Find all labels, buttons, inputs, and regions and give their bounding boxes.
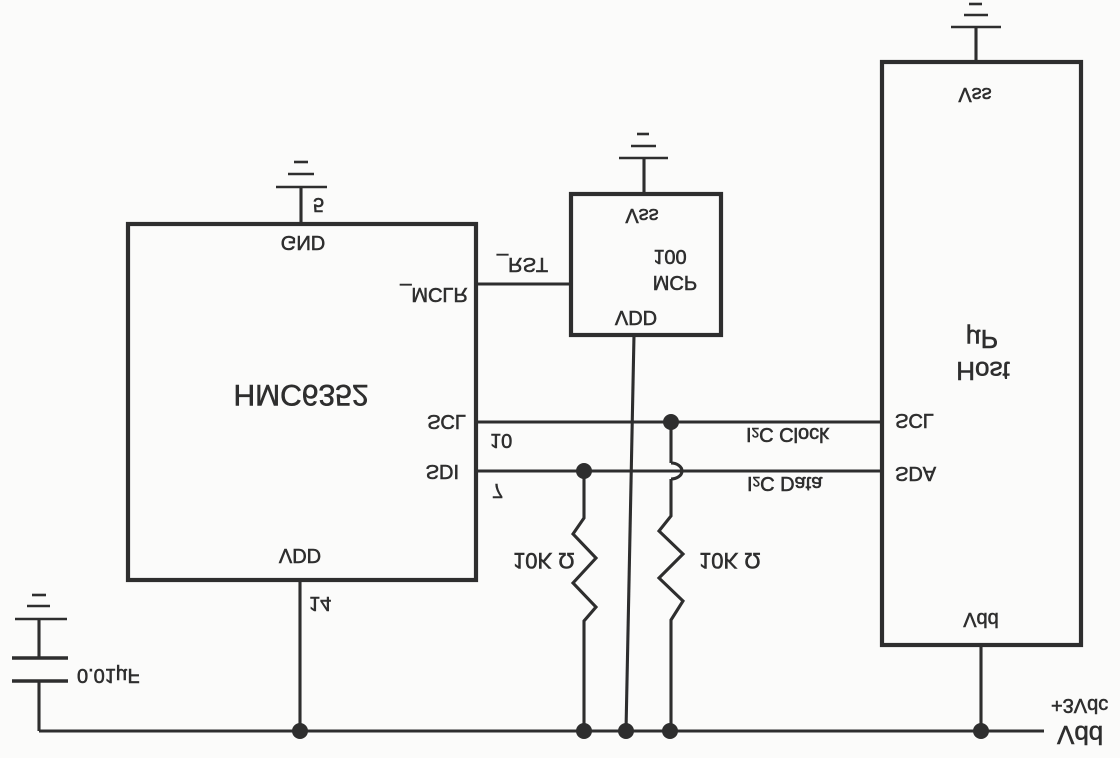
svg-text:MCP: MCP <box>653 271 697 293</box>
svg-text:10K Ω: 10K Ω <box>513 548 575 573</box>
svg-text:100: 100 <box>653 245 686 267</box>
svg-text:µP: µP <box>966 324 998 354</box>
svg-text:10K Ω: 10K Ω <box>699 548 761 573</box>
svg-text:VDD: VDD <box>279 544 321 566</box>
svg-text:Vdd: Vdd <box>1057 720 1103 750</box>
svg-text:SCL: SCL <box>895 409 934 431</box>
svg-text:Host: Host <box>956 356 1010 386</box>
svg-text:5: 5 <box>313 193 324 215</box>
svg-text:Vdd: Vdd <box>963 608 999 630</box>
svg-text:_MCLR: _MCLR <box>399 283 468 305</box>
svg-text:0.01µF: 0.01µF <box>77 664 140 686</box>
svg-text:HMC6352: HMC6352 <box>233 378 368 411</box>
svg-text:I2C Clock: I2C Clock <box>746 423 830 445</box>
svg-text:GND: GND <box>281 231 325 253</box>
svg-text:_RST: _RST <box>496 253 548 275</box>
svg-text:14: 14 <box>309 592 331 614</box>
svg-text:SDI: SDI <box>426 460 459 482</box>
svg-text:Vss: Vss <box>625 204 658 226</box>
svg-text:SDA: SDA <box>895 462 937 484</box>
svg-text:VDD: VDD <box>615 306 657 328</box>
svg-text:7: 7 <box>492 479 503 501</box>
svg-text:10: 10 <box>490 429 512 451</box>
svg-text:+3Vdc: +3Vdc <box>1051 694 1108 716</box>
svg-text:Vss: Vss <box>958 83 991 105</box>
svg-text:SCL: SCL <box>427 410 466 432</box>
